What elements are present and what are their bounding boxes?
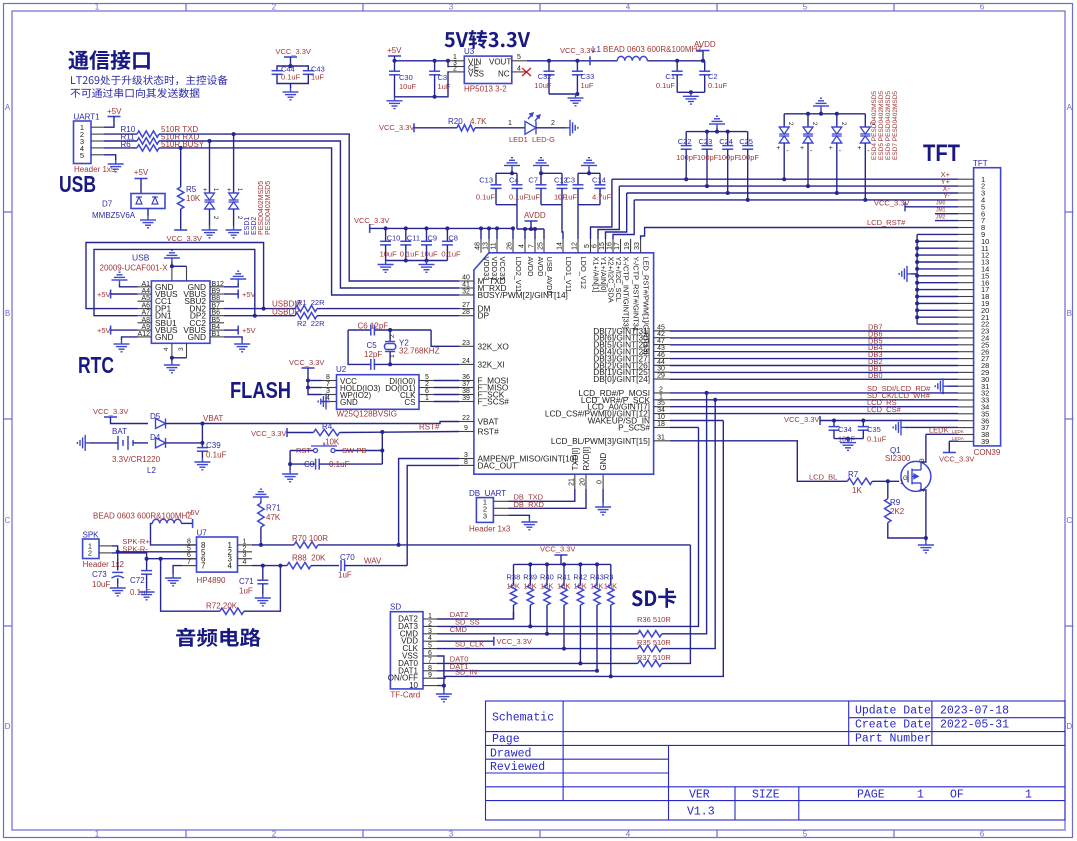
- capacitor C1: [656, 61, 683, 93]
- ground (C10/C11): [378, 261, 394, 273]
- ground (C0): [282, 470, 298, 482]
- svg-text:C73: C73: [92, 570, 107, 579]
- svg-text:48: 48: [475, 242, 482, 250]
- wire UART pin2/3/4 rows: [104, 134, 137, 148]
- svg-text:C14: C14: [592, 176, 606, 185]
- wire TXD[I] to DB_UART: [509, 489, 575, 501]
- MCU pin 3 AMPEN/P_MISO/GINT[10]: [459, 452, 577, 464]
- junction dots VCC rail at MCU power pins: [479, 226, 491, 230]
- svg-text:VOUT: VOUT: [489, 58, 511, 67]
- USB pin A7 DN1: [138, 310, 172, 321]
- resistor R38 10K: [507, 564, 521, 619]
- wire RST tap: [380, 430, 384, 464]
- ground above C13/C4: [504, 158, 520, 176]
- MCU pin 4 AVDD: [519, 239, 535, 276]
- svg-text:13: 13: [483, 242, 490, 250]
- svg-text:NC: NC: [498, 70, 510, 79]
- svg-text:19: 19: [624, 242, 631, 250]
- svg-text:USB: USB: [132, 253, 150, 263]
- MCU pin 32 BUSY/PWM[2]/GINT[14]: [459, 289, 568, 301]
- ground (U7 pin7): [165, 566, 182, 586]
- svg-text:37: 37: [462, 381, 470, 388]
- svg-text:R37 510R: R37 510R: [637, 653, 671, 662]
- TFT pin 29: [958, 368, 989, 377]
- svg-text:9: 9: [464, 425, 468, 432]
- svg-text:MMBZ5V6A: MMBZ5V6A: [92, 211, 136, 220]
- svg-text:AVDD: AVDD: [524, 211, 546, 220]
- svg-text:CS: CS: [404, 398, 415, 407]
- TFT pin 19: [958, 299, 989, 308]
- ground above C7/C12: [533, 158, 549, 176]
- wire SPK to U7: [112, 546, 197, 561]
- wire CMD net: [437, 625, 638, 634]
- svg-text:AVDD: AVDD: [526, 257, 535, 277]
- svg-text:5: 5: [517, 54, 521, 61]
- svg-text:20009-UCAF001-X: 20009-UCAF001-X: [100, 264, 169, 273]
- wire SD_SS net: [437, 427, 699, 626]
- svg-text:2023-07-18: 2023-07-18: [940, 705, 1009, 718]
- wire Y- net: [634, 199, 958, 201]
- svg-text:+: +: [203, 187, 207, 194]
- MCU pin 30 DB[1]/GINT[25]: [593, 366, 670, 378]
- wire BUSY net to MCU: [159, 148, 459, 295]
- svg-text:10K: 10K: [186, 194, 201, 203]
- resistor R40 10K: [540, 564, 554, 635]
- MCU pin 11 VCC35: [491, 239, 507, 280]
- MCU pin 2 LCD_RD#/P_MOSI: [579, 386, 670, 398]
- svg-text:AVDD: AVDD: [694, 40, 716, 49]
- power VCC_3.3V port (VOUT rail): [560, 46, 595, 65]
- svg-text:5: 5: [584, 244, 591, 248]
- capacitor C43: [291, 65, 325, 84]
- capacitor C22: [676, 132, 698, 182]
- svg-text:22: 22: [462, 415, 470, 422]
- wire LCD_BL from MCU pin31: [670, 441, 847, 482]
- svg-text:10uF: 10uF: [534, 81, 552, 90]
- USB pin B9 VBUS: [183, 288, 224, 299]
- wire DAT1 net: [437, 662, 597, 671]
- wire DB5 net: [670, 336, 958, 345]
- svg-text:A12: A12: [138, 331, 151, 338]
- svg-text:C9: C9: [428, 234, 438, 243]
- svg-text:R2 22R: R2 22R: [297, 319, 325, 328]
- power VCC_3.3V (FLASH): [289, 358, 324, 395]
- MCU pin 36 F_MOSI: [459, 374, 508, 386]
- svg-text:R5: R5: [186, 185, 197, 194]
- connector SPK header 1x2: [83, 531, 125, 570]
- svg-text:R20: R20: [448, 117, 463, 126]
- svg-text:4.7K: 4.7K: [470, 117, 487, 126]
- svg-text:JM2: JM2: [936, 214, 946, 220]
- svg-text:4: 4: [626, 3, 631, 12]
- MCU pin 45 DB[7]/GINT[31]: [593, 324, 670, 336]
- svg-text:16: 16: [607, 242, 614, 250]
- svg-text:Drawed: Drawed: [490, 747, 531, 760]
- TFT pin 21: [958, 313, 989, 322]
- capacitor C3: [558, 173, 600, 204]
- USB pin B1 GND: [188, 331, 224, 342]
- svg-text:LDO_V12: LDO_V12: [579, 257, 588, 289]
- wire SD_IN net: [437, 421, 723, 679]
- capacitor C0: [290, 459, 382, 470]
- svg-text:LDO1_V11: LDO1_V11: [564, 257, 573, 293]
- resistor R71 47K: [253, 489, 281, 547]
- svg-text:DP: DP: [478, 311, 490, 321]
- svg-text:Header 1x3: Header 1x3: [469, 525, 511, 534]
- USB pin A9 VBUS: [138, 324, 179, 335]
- svg-text:1: 1: [95, 830, 100, 839]
- svg-text:BEAD 0603 600R&100MHZ: BEAD 0603 600R&100MHZ: [603, 45, 702, 54]
- resistor R72 20K: [161, 559, 281, 615]
- power +5V (USB B9): [224, 290, 256, 300]
- wire DB7 net: [670, 323, 958, 332]
- wire Y+ to MCU pin6: [598, 186, 619, 239]
- resistor R7 1K: [847, 470, 899, 495]
- wire TXD net to MCU: [159, 134, 459, 281]
- ESD diode ESD2: [227, 134, 242, 226]
- svg-text:9: 9: [428, 672, 432, 679]
- ground (C44/C43): [283, 84, 299, 100]
- svg-text:C34: C34: [838, 425, 852, 434]
- svg-text:B: B: [1067, 309, 1072, 318]
- svg-text:UART1: UART1: [74, 113, 101, 122]
- svg-text:AVDD: AVDD: [536, 257, 545, 277]
- ground (ESD1): [202, 226, 218, 238]
- capacitor C34: [829, 421, 856, 444]
- svg-text:Update Date: Update Date: [855, 705, 931, 718]
- ground (C1/C2): [683, 92, 699, 104]
- svg-text:R9: R9: [890, 498, 901, 507]
- ground (C39): [194, 458, 210, 470]
- svg-text:ESD6 PESD0402MSD5: ESD6 PESD0402MSD5: [885, 91, 892, 160]
- USB pin B12 GND: [188, 281, 224, 292]
- svg-text:VCC_3.3V: VCC_3.3V: [93, 407, 128, 416]
- resistor R9 2K2: [885, 481, 926, 538]
- svg-text:7: 7: [428, 657, 432, 664]
- svg-text:17: 17: [614, 242, 621, 250]
- svg-text:D: D: [5, 722, 11, 731]
- svg-text:39: 39: [462, 395, 470, 402]
- power VCC_3.3V (TFT pin36 rail): [784, 415, 958, 425]
- power +5V (USB A4): [97, 290, 138, 300]
- svg-text:VDD33: VDD33: [482, 257, 491, 281]
- svg-text:SD: SD: [390, 603, 401, 612]
- diode D7 MMBZ5V6A: [92, 168, 165, 220]
- svg-text:6: 6: [980, 830, 985, 839]
- wire C22 group top rail: [686, 130, 748, 134]
- svg-text:2: 2: [428, 620, 432, 627]
- MCU pin 35 LCD_A0/GINT[7]: [587, 400, 670, 412]
- resistor R1 22R: [295, 298, 459, 312]
- wire DB2 net: [670, 357, 958, 366]
- svg-text:ESD1: ESD1: [244, 217, 251, 235]
- TFT pin 36: [958, 416, 989, 425]
- USB pin B8 SBU2: [184, 295, 224, 306]
- svg-text:8: 8: [464, 459, 468, 466]
- svg-text:Reviewed: Reviewed: [490, 761, 545, 774]
- svg-text:VCC_3.3V: VCC_3.3V: [497, 637, 532, 646]
- svg-text:+5V: +5V: [242, 290, 256, 299]
- svg-text:1: 1: [900, 479, 904, 486]
- diode D5: [150, 412, 202, 429]
- svg-text:VCC_3.3V: VCC_3.3V: [251, 429, 286, 438]
- MCU pin 18 P_SCS#: [618, 421, 670, 433]
- TFT pin 24: [958, 334, 989, 343]
- transistor Q1 SI2300: [885, 446, 931, 492]
- MCU pin 26 LDO2_V11: [507, 239, 523, 293]
- connector DB_UART header 1x3: [469, 489, 511, 534]
- resistor R36 510R: [637, 393, 707, 637]
- svg-text:VCC_3.3V: VCC_3.3V: [540, 545, 575, 554]
- wire ESD4-7 top rail: [784, 112, 865, 116]
- resistor R2 22R: [295, 313, 459, 329]
- MCU pin 31 LCD_BL/PWM[3]/GINT[15]: [551, 434, 670, 446]
- USB pin A12 GND: [138, 331, 174, 342]
- ground (USB A12): [114, 337, 138, 352]
- MCU pin 48 VDD33: [475, 239, 491, 280]
- junction dots TXD/RXD/BUSY: [179, 132, 236, 150]
- svg-text:GND: GND: [155, 332, 173, 342]
- svg-text:U2: U2: [336, 365, 347, 374]
- MCU U1 main controller: [474, 253, 654, 474]
- wire DAC_OUT to WAV row: [407, 465, 459, 565]
- capacitor C30: [389, 61, 417, 97]
- MCU pin 22 VBAT: [459, 415, 499, 427]
- svg-text:C11: C11: [407, 234, 420, 243]
- ground (battery) rotated: [77, 435, 89, 451]
- flash memory U2 W25Q128BVSIG: [322, 365, 435, 419]
- wire F_SCK: [434, 394, 459, 396]
- svg-text:10uF: 10uF: [380, 250, 398, 259]
- svg-text:1uF: 1uF: [581, 81, 594, 90]
- connector USB 20009-UCAF001-X: [100, 253, 211, 344]
- svg-text:RXD[I]: RXD[I]: [582, 447, 591, 471]
- wire C3 to LDO_V12 pin: [577, 205, 579, 239]
- capacitor C10: [380, 226, 401, 260]
- svg-text:B8: B8: [212, 295, 221, 302]
- svg-text:2: 2: [425, 381, 429, 388]
- svg-text:TXD[I]: TXD[I]: [571, 448, 580, 471]
- USB pin B7 DN2: [189, 303, 224, 314]
- capacitor C8: [441, 226, 461, 260]
- svg-text:12pF: 12pF: [364, 350, 382, 359]
- power VCC_3.3V (battery): [93, 407, 148, 424]
- TFT pin 6: [958, 209, 985, 218]
- svg-text:5: 5: [428, 643, 432, 650]
- capacitor C72: [130, 559, 152, 597]
- svg-text:W25Q128BVSIG: W25Q128BVSIG: [337, 410, 397, 419]
- TFT pin 5: [958, 202, 985, 211]
- svg-text:0.1uF: 0.1uF: [441, 250, 461, 259]
- svg-text:4: 4: [519, 244, 526, 248]
- USB shell pins top: [170, 262, 187, 281]
- wire SD_CLK net: [437, 640, 638, 649]
- label ESD1 ESD2 PESD0402MSD5: [244, 181, 272, 235]
- capacitor C12: [541, 173, 568, 204]
- capacitor C13: [476, 173, 517, 204]
- ground (TFT bus) rotated: [899, 266, 917, 282]
- svg-text:+5V: +5V: [242, 326, 256, 335]
- capacitor C23: [697, 132, 719, 189]
- svg-text:5: 5: [803, 830, 808, 839]
- svg-text:C10: C10: [387, 234, 401, 243]
- MCU pin 28 DP: [459, 309, 489, 321]
- section title 音频电路: [176, 628, 261, 647]
- power +5V (U3): [387, 46, 449, 61]
- svg-text:C1: C1: [665, 72, 675, 81]
- svg-text:C8: C8: [448, 234, 458, 243]
- svg-text:0.1uF: 0.1uF: [476, 193, 496, 202]
- svg-text:VCC_3.3V: VCC_3.3V: [167, 234, 202, 243]
- svg-text:U7: U7: [197, 529, 208, 538]
- svg-text:4: 4: [228, 562, 233, 571]
- resistor R10: [121, 125, 199, 137]
- TFT pin 25: [958, 340, 989, 349]
- MCU pin 40 M_TXD: [459, 275, 506, 287]
- TFT pin 32: [958, 389, 989, 398]
- svg-text:0.1uF: 0.1uF: [281, 73, 301, 82]
- TFT pin 38: [958, 430, 989, 439]
- svg-text:B1: B1: [212, 331, 221, 338]
- svg-text:5: 5: [80, 151, 84, 160]
- ground (USB A1): [112, 272, 138, 287]
- ground (DB_UART pin3): [509, 515, 538, 530]
- capacitor C3: [429, 61, 451, 97]
- svg-text:100pF: 100pF: [718, 153, 740, 162]
- svg-text:RTC: RTC: [78, 352, 114, 378]
- svg-text:0.1uF: 0.1uF: [656, 81, 676, 90]
- label ESD4-7 PESD0402MSD5: [871, 91, 899, 160]
- ground (SD): [436, 690, 452, 702]
- inductor bead (audio +5V): [93, 508, 200, 545]
- wire Q1 source to ground: [921, 490, 928, 540]
- wire SD pullup rail: [514, 562, 611, 566]
- svg-text:23: 23: [462, 340, 470, 347]
- svg-text:LEDK: LEDK: [929, 426, 949, 435]
- wire LCD_RST# to MCU pin33: [641, 228, 958, 240]
- svg-text:39: 39: [981, 437, 989, 446]
- svg-text:4: 4: [626, 830, 631, 839]
- svg-text:ESD2: ESD2: [251, 217, 258, 235]
- svg-text:DB0: DB0: [868, 371, 883, 380]
- MCU pin 42 DB[6]/GINT[30]: [593, 331, 670, 343]
- TFT pin 31: [958, 382, 989, 391]
- svg-text:Part Number: Part Number: [855, 733, 931, 746]
- svg-text:JM1: JM1: [936, 207, 946, 213]
- svg-text:2: 2: [88, 548, 92, 557]
- svg-text:C22: C22: [678, 137, 692, 146]
- wire C10 group ground rail: [386, 259, 448, 263]
- MCU pin 10 WAKEUP/SD_IN: [588, 414, 670, 426]
- svg-text:47K: 47K: [266, 513, 281, 522]
- svg-text:C3: C3: [438, 73, 448, 82]
- svg-text:20: 20: [580, 478, 587, 486]
- svg-text:1: 1: [389, 354, 396, 358]
- crystal Y2 32.768KHZ: [385, 330, 440, 364]
- MCU pin 27 DM: [459, 302, 490, 314]
- svg-text:LDO2_V11: LDO2_V11: [514, 257, 523, 293]
- svg-text:SW-PB: SW-PB: [342, 446, 366, 455]
- capacitor C14: [578, 173, 612, 204]
- no-connect X on U3 pin 4: [522, 68, 531, 76]
- USB pin A1 GND: [138, 281, 174, 292]
- title block: [486, 701, 1066, 820]
- svg-text:F_SCS#: F_SCS#: [478, 397, 510, 407]
- svg-text:0.1uF: 0.1uF: [509, 193, 529, 202]
- ESD diode ESD6: [829, 114, 846, 195]
- svg-text:SPK: SPK: [83, 531, 100, 540]
- svg-text:32K_XI: 32K_XI: [478, 359, 505, 369]
- ESD diode ESD7: [857, 114, 874, 202]
- power AVDD (MCU): [517, 205, 546, 239]
- svg-text:14: 14: [557, 242, 564, 250]
- svg-text:+: +: [857, 145, 861, 152]
- ground (C73): [110, 584, 126, 596]
- capacitor C7: [527, 173, 562, 204]
- net stub JM0 JM1 JM2: [935, 201, 958, 221]
- svg-text:VBAT: VBAT: [478, 417, 499, 427]
- TFT pin 16: [958, 278, 989, 287]
- svg-text:33: 33: [634, 242, 641, 250]
- note text: [70, 75, 227, 98]
- ground (D7): [140, 216, 156, 228]
- capacitor C33: [572, 61, 594, 94]
- capacitor C39: [197, 441, 227, 460]
- wire USBDM loop: [86, 243, 266, 311]
- capacitor C25: [738, 132, 760, 202]
- power VCC_3.3V (TFT pin5): [874, 199, 958, 212]
- svg-text:41: 41: [462, 282, 470, 289]
- MCU pin 0 GND: [597, 453, 609, 490]
- TFT pin 8: [958, 223, 985, 232]
- svg-text:2: 2: [453, 66, 457, 73]
- ground (LED1) rotated: [566, 120, 578, 136]
- ground (C72): [139, 588, 155, 600]
- svg-text:2K2: 2K2: [890, 507, 905, 516]
- svg-text:LCD_BL: LCD_BL: [809, 473, 837, 482]
- svg-text:C72: C72: [130, 576, 145, 585]
- svg-text:P_SCS#: P_SCS#: [618, 422, 650, 432]
- svg-text:18: 18: [657, 421, 665, 428]
- wire SD pin10 to ground: [437, 684, 446, 690]
- capacitor C32: [534, 61, 554, 94]
- svg-text:VCC_3.3V: VCC_3.3V: [560, 46, 595, 55]
- svg-text:2: 2: [389, 334, 396, 338]
- svg-text:8: 8: [428, 665, 432, 672]
- svg-text:3: 3: [483, 511, 487, 520]
- MCU pin 25 USB_AVDD: [538, 239, 554, 296]
- svg-text:1: 1: [428, 613, 432, 620]
- svg-text:32K_XO: 32K_XO: [478, 341, 510, 351]
- MCU pin 7 AVDD: [529, 239, 545, 276]
- svg-text:R36 510R: R36 510R: [637, 615, 671, 624]
- ESD diode ESD5: [800, 114, 817, 188]
- TFT pin 10: [958, 237, 989, 246]
- TFT pin 26: [958, 347, 989, 356]
- TFT pin 27: [958, 354, 989, 363]
- svg-text:1: 1: [917, 789, 924, 802]
- USB pin A5 CC1: [138, 295, 172, 306]
- TFT pin 18: [958, 292, 989, 301]
- capacitor C44: [272, 65, 301, 84]
- svg-text:C5: C5: [367, 341, 378, 350]
- resistor R88 20K: [252, 554, 339, 569]
- svg-text:DB_UART: DB_UART: [469, 489, 506, 498]
- svg-text:25: 25: [538, 242, 545, 250]
- svg-text:R3: R3: [604, 573, 614, 582]
- wire SD_SDI/LCD_RD# net: [670, 384, 958, 395]
- resistor R43 10K: [590, 564, 604, 672]
